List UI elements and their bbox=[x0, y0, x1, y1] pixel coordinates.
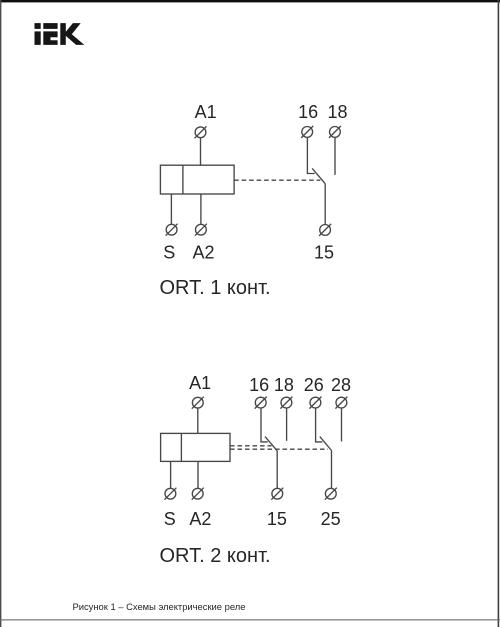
svg-text:15: 15 bbox=[314, 242, 334, 262]
wire contact common to terminal 15 bbox=[324, 184, 326, 225]
svg-text:ORT. 1 конт.: ORT. 1 конт. bbox=[160, 277, 271, 299]
terminal 15 bbox=[319, 224, 331, 236]
wire coil to terminal A2 (relay 2) bbox=[197, 461, 199, 488]
svg-text:25: 25 bbox=[321, 509, 341, 529]
svg-text:A2: A2 bbox=[189, 509, 211, 529]
terminal A2 bbox=[195, 224, 207, 236]
mechanical link coil to contact 1 (dashed, upper) bbox=[230, 445, 272, 447]
mechanical link coil to contact (dashed) bbox=[234, 179, 320, 181]
svg-text:18: 18 bbox=[327, 102, 347, 122]
IEK logo bbox=[35, 23, 85, 45]
terminal 15 (relay 2) bbox=[271, 488, 283, 500]
terminal 25 bbox=[325, 488, 337, 500]
terminal 28 bbox=[335, 397, 347, 409]
svg-text:16: 16 bbox=[298, 102, 318, 122]
svg-text:26: 26 bbox=[304, 375, 324, 395]
svg-text:28: 28 bbox=[331, 375, 351, 395]
wire coil to terminal A2 bbox=[200, 194, 202, 224]
svg-text:A1: A1 bbox=[195, 102, 217, 122]
terminal S (relay 2) bbox=[164, 488, 176, 500]
svg-text:S: S bbox=[164, 509, 176, 529]
svg-text:ORT. 2 конт.: ORT. 2 конт. bbox=[160, 545, 271, 567]
changeover contact blade 15-16-18 bbox=[312, 168, 325, 183]
wire 16 to NC fixed contact bbox=[307, 137, 314, 173]
wire 28 NO fixed contact (contact 2) bbox=[341, 408, 343, 442]
svg-text:Рисунок 1 – Схемы электрически: Рисунок 1 – Схемы электрические реле bbox=[73, 601, 246, 612]
terminal A1 bbox=[195, 126, 207, 138]
wire 18 NO fixed contact (contact 1) bbox=[286, 408, 288, 441]
wire contact 2 common to terminal 25 bbox=[331, 451, 333, 489]
wire 26 to NC fixed contact (contact 2) bbox=[316, 408, 323, 442]
terminal 16 bbox=[301, 126, 313, 138]
changeover contact 2 blade 25-26-28 bbox=[320, 437, 332, 451]
terminal S bbox=[166, 224, 178, 236]
svg-text:A2: A2 bbox=[192, 242, 214, 262]
terminal 18 bbox=[329, 126, 341, 138]
wire coil to terminal S (relay 2) bbox=[170, 461, 172, 488]
relay coil U1 bbox=[160, 165, 234, 194]
wire 18 NO fixed contact bbox=[334, 137, 336, 175]
terminal A2 (relay 2) bbox=[192, 488, 204, 500]
wire contact 1 common to terminal 15 bbox=[276, 451, 278, 489]
mechanical link coil to contact 2 (dashed, lower) bbox=[230, 448, 328, 450]
relay coil U2 bbox=[161, 433, 230, 461]
changeover contact 1 blade 15-16-18 bbox=[265, 437, 277, 451]
svg-text:A1: A1 bbox=[189, 373, 211, 393]
terminal 18 (relay 2) bbox=[280, 397, 292, 409]
wire coil to terminal S bbox=[170, 194, 172, 224]
terminal 26 bbox=[309, 397, 321, 409]
terminal 16 (relay 2) bbox=[255, 397, 267, 409]
wire A1 to coil (relay 2) bbox=[197, 408, 199, 433]
svg-text:S: S bbox=[163, 242, 175, 262]
svg-text:15: 15 bbox=[267, 509, 287, 529]
svg-text:18: 18 bbox=[274, 375, 294, 395]
terminal A1 (relay 2) bbox=[192, 397, 204, 409]
wire A1 to coil bbox=[200, 138, 202, 166]
svg-text:16: 16 bbox=[249, 375, 269, 395]
wire 16 to NC fixed contact (contact 1) bbox=[261, 408, 268, 442]
